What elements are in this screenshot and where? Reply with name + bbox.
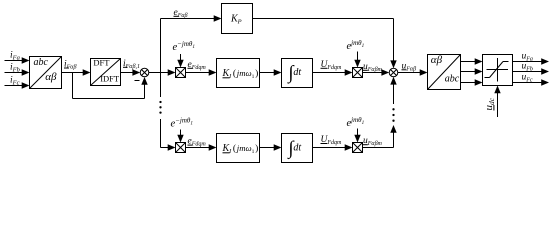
svg-text:IDFT: IDFT [100, 73, 120, 83]
svg-text:αβ: αβ [431, 54, 443, 66]
svg-text:abc: abc [445, 73, 460, 84]
svg-text:αβ: αβ [45, 71, 57, 83]
svg-text:abc: abc [34, 57, 49, 68]
svg-text:DFT: DFT [93, 57, 110, 67]
